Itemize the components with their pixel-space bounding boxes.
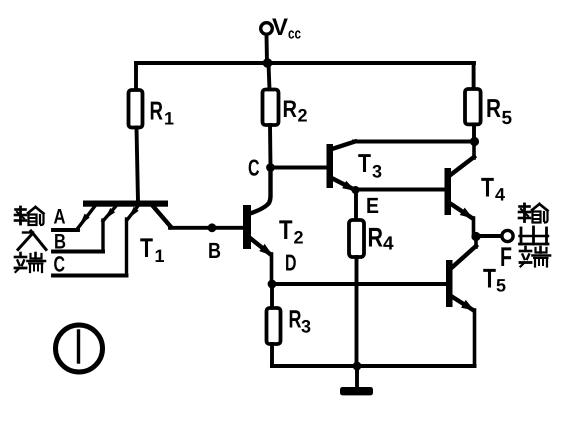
label output terminal Chinese 输出端 xyxy=(519,204,550,267)
wire R3 to bottom rail xyxy=(270,344,274,366)
transistor T4 collector xyxy=(451,142,474,175)
wire input C xyxy=(53,274,127,278)
svg-text:4: 4 xyxy=(495,185,505,205)
transistor T2 emitter xyxy=(250,238,273,284)
transistor T4 emitter xyxy=(451,204,474,237)
wire node E to T4 base xyxy=(356,188,446,192)
char duan (output) xyxy=(520,247,550,267)
label R4 xyxy=(368,223,395,255)
figure number circled 1 xyxy=(56,325,103,372)
resistor R3 xyxy=(267,308,281,344)
wire R4 to ground rail xyxy=(355,257,359,366)
wire node C to T3 base xyxy=(271,166,328,170)
char shu (output) xyxy=(519,204,548,223)
resistor R2 xyxy=(263,63,279,167)
svg-text:C: C xyxy=(248,155,260,181)
svg-text:3: 3 xyxy=(301,317,311,337)
svg-text:F: F xyxy=(500,242,512,272)
wire bottom ground rail xyxy=(272,364,475,368)
label T5 xyxy=(483,264,506,296)
svg-text:1: 1 xyxy=(164,109,174,129)
svg-text:4: 4 xyxy=(383,234,394,255)
svg-text:T: T xyxy=(483,264,496,294)
svg-text:D: D xyxy=(285,250,297,276)
resistor R4 xyxy=(349,220,364,257)
node B junction dot xyxy=(208,223,217,232)
ground symbol xyxy=(340,387,373,395)
svg-text:E: E xyxy=(366,193,379,218)
transistor T1 emitter 3 (input C) xyxy=(127,206,139,276)
wire top Vcc rail xyxy=(136,61,474,65)
svg-text:R: R xyxy=(368,223,384,253)
svg-text:T: T xyxy=(358,148,371,178)
svg-text:2: 2 xyxy=(298,106,308,126)
label T3 xyxy=(358,148,382,182)
wire node F to output terminal xyxy=(476,234,502,238)
label input terminal Chinese 输入端 xyxy=(15,207,46,272)
transistor T2 collector xyxy=(250,167,271,214)
wire T1 collector to T2 base xyxy=(170,226,243,230)
transistor T3 collector xyxy=(332,142,355,150)
output terminal circle xyxy=(502,230,513,241)
transistor T1 emitter 1 (input A) xyxy=(78,206,95,228)
wire input B xyxy=(53,250,103,254)
wire R1 to T1 base xyxy=(137,128,139,203)
svg-text:A: A xyxy=(54,206,66,229)
char chu (output) xyxy=(520,227,549,244)
transistor T1 (multi-emitter) base bar xyxy=(83,201,168,207)
svg-text:5: 5 xyxy=(496,276,506,296)
transistor T5 collector xyxy=(453,237,477,268)
label R5 xyxy=(486,93,513,129)
wire R1 drop from rail xyxy=(134,63,138,90)
char duan (input) xyxy=(15,253,45,272)
wire node D to R3 xyxy=(270,284,274,308)
transistor T3 base bar xyxy=(327,144,334,188)
resistor R5 xyxy=(465,63,481,142)
svg-text:3: 3 xyxy=(372,162,382,182)
svg-text:2: 2 xyxy=(294,228,304,248)
wire ground stem xyxy=(355,366,359,388)
transistor T5 base bar xyxy=(446,260,453,307)
Vcc terminal xyxy=(261,23,273,63)
transistor T1 emitter 2 (input B) xyxy=(103,206,116,252)
svg-text:5: 5 xyxy=(502,108,513,129)
node C junction dot xyxy=(266,163,275,172)
svg-text:R: R xyxy=(283,96,298,123)
char ru (input) xyxy=(18,231,46,250)
transistor T5 emitter xyxy=(453,297,475,366)
node junction at Vcc rail xyxy=(263,58,273,68)
wire node D to T5 base xyxy=(272,282,446,286)
label T1 xyxy=(140,233,165,266)
svg-text:R: R xyxy=(150,96,164,126)
svg-text:T: T xyxy=(481,173,494,203)
node F junction dot xyxy=(471,232,480,241)
resistor R1 xyxy=(129,90,143,128)
label T4 xyxy=(481,173,505,205)
svg-text:cc: cc xyxy=(288,26,301,43)
label R1 xyxy=(150,96,175,129)
wire T3 collector to R5 bottom xyxy=(354,140,474,144)
ground junction dot xyxy=(353,362,362,371)
node D junction dot xyxy=(268,280,277,289)
svg-text:B: B xyxy=(54,231,66,254)
transistor T4 base bar xyxy=(445,168,452,215)
label R2 xyxy=(283,96,308,126)
transistor T2 base bar xyxy=(243,205,251,249)
char shu (input) xyxy=(15,207,44,225)
label T2 xyxy=(279,215,304,248)
svg-text:R: R xyxy=(289,306,302,334)
svg-text:T: T xyxy=(140,233,153,263)
wire input A xyxy=(53,228,78,232)
transistor T3 emitter xyxy=(333,179,357,192)
wire node E to R4 xyxy=(354,190,358,220)
label R3 xyxy=(289,306,312,337)
svg-text:R: R xyxy=(486,93,501,123)
node junction below R5 xyxy=(470,137,479,146)
transistor T1 collector diagonal xyxy=(152,205,171,227)
svg-text:B: B xyxy=(208,238,221,263)
svg-text:1: 1 xyxy=(155,246,165,266)
svg-text:T: T xyxy=(279,215,293,245)
label Vcc xyxy=(272,14,301,43)
node E junction dot xyxy=(352,186,360,194)
svg-text:V: V xyxy=(272,14,288,41)
svg-text:C: C xyxy=(54,252,66,277)
